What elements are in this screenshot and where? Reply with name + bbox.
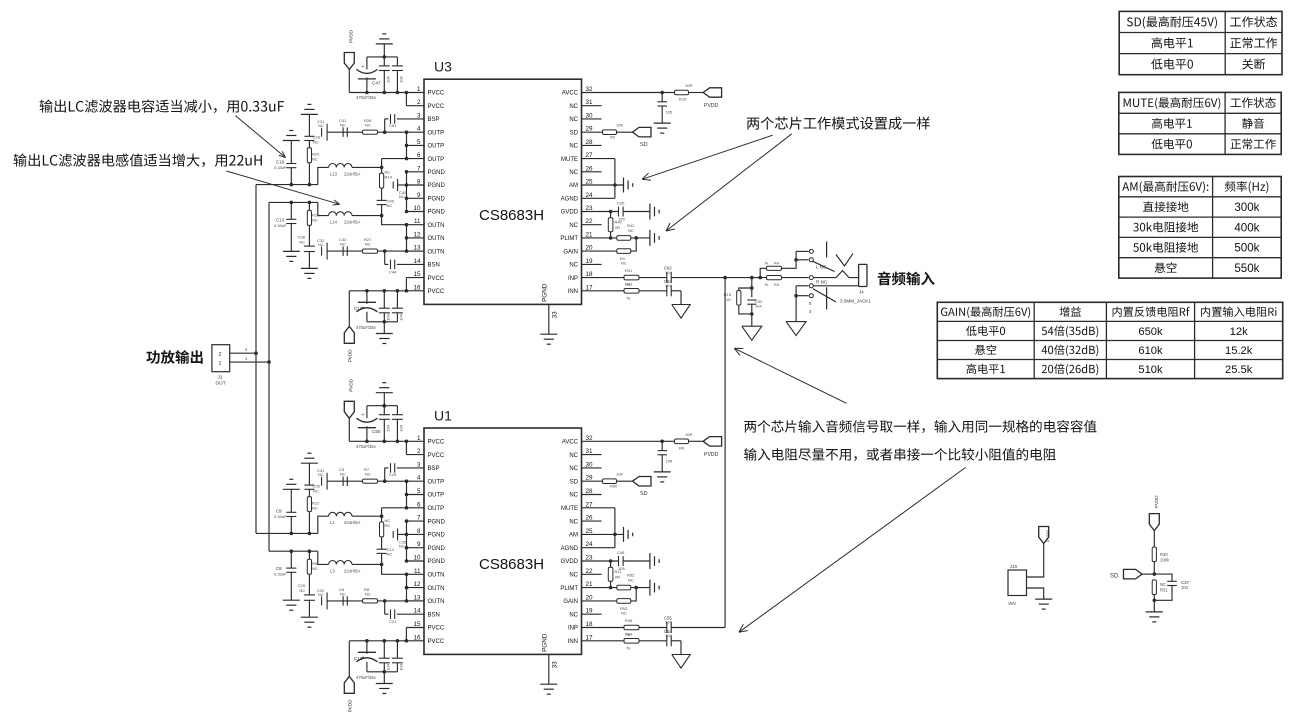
power tag PVDD at SD divider (1149, 495, 1159, 531)
svg-text:PLIMT: PLIMT (560, 586, 578, 592)
arrow to audio bus bottom (739, 467, 966, 632)
U1 pin number 31 (586, 448, 594, 455)
arrow to L14 (226, 171, 339, 205)
svg-text:NC: NC (399, 194, 405, 199)
capacitor C21 bootstrap BSN pin14 (385, 601, 424, 624)
svg-text:NC: NC (318, 242, 324, 247)
U1 pin 28 name NC (569, 493, 578, 499)
U1 pin number 20 (586, 594, 594, 601)
wire U1 MUTE-AM-AGND bracket (582, 508, 624, 548)
svg-text:NC: NC (365, 242, 371, 247)
svg-text:SD: SD (640, 491, 648, 497)
ground above C18 (283, 131, 300, 141)
wire U1 OUTN bus pins 11-13 (405, 573, 424, 603)
U1 pin number 18 (586, 621, 594, 628)
svg-text:OUTN: OUTN (428, 573, 445, 579)
wire output bus OUT- vertical (267, 202, 271, 551)
wire U3 OUTP row pin 4 (327, 130, 424, 134)
resistor R48 7k INP (582, 618, 667, 637)
annotation output LC capacitor note (40, 99, 284, 113)
U1 pin 7 name PGND (428, 519, 446, 525)
svg-text:PVDD: PVDD (348, 378, 353, 391)
capacitor C62 INP coupling (664, 266, 725, 284)
ground above U1 top link (376, 383, 393, 406)
power tag PVDD at U3 top (344, 30, 354, 93)
svg-text:7k: 7k (764, 261, 768, 266)
U3 pin number 6 (417, 152, 421, 159)
resistor R11 0R GVDD-PLIMT (608, 561, 622, 588)
svg-text:J1: J1 (218, 375, 223, 381)
ground at U3 PLIMT (650, 230, 659, 246)
U1 pin 29 name SD (570, 479, 579, 485)
svg-text:104: 104 (399, 313, 404, 320)
resistor R2 10K SD pin 29 (582, 123, 633, 140)
wire U3 bottom link (367, 320, 398, 324)
net tag SD at divider (1110, 569, 1156, 579)
U3 pin 29 name SD (570, 130, 579, 136)
U3 pin number 3 (417, 112, 421, 119)
U1 pin 32 name AVCC (562, 440, 579, 446)
svg-text:NC: NC (387, 203, 393, 208)
U3 pin number 8 (417, 179, 421, 186)
svg-text:PVDD: PVDD (1046, 530, 1051, 542)
U3 pin 2 name PVCC (428, 104, 445, 110)
capacitor C49 GVDD 105 (617, 550, 650, 571)
capacitor C28 NC (304, 114, 320, 144)
resistor R7 NC row4 (363, 467, 378, 483)
U1 pin number 16 (413, 634, 421, 641)
svg-text:470uF/35v: 470uF/35v (356, 675, 377, 680)
wire U1 PVCC bottom rail pins 15-16 (349, 628, 424, 643)
U1 pin 22 name NC (569, 573, 578, 579)
capacitor U3 PGND NC cap (393, 179, 407, 199)
svg-text:100k: 100k (1160, 558, 1170, 563)
svg-text:1: 1 (219, 361, 222, 367)
svg-text:0.33uF: 0.33uF (274, 514, 287, 519)
svg-text:C47: C47 (372, 80, 381, 85)
svg-text:L NC: L NC (816, 264, 827, 269)
svg-text:104: 104 (665, 633, 672, 638)
capacitor C8 0.33uF filter (274, 551, 296, 600)
svg-text:PVCC: PVCC (428, 104, 445, 110)
svg-text:104: 104 (755, 304, 762, 309)
svg-text:470uF/35v: 470uF/35v (356, 325, 377, 330)
wire U3 filter node row A (256, 183, 318, 187)
svg-text:R3: R3 (774, 282, 780, 287)
svg-text:GAIN: GAIN (563, 249, 578, 255)
svg-text:PVCC: PVCC (428, 289, 445, 295)
connector J4 3.5mm jack contacts (794, 242, 871, 315)
resistor R16 10R AVCC (662, 83, 703, 102)
svg-text:PVDD: PVDD (348, 349, 353, 362)
U3 pin 5 name OUTP (428, 144, 445, 150)
U1 pin number 23 (586, 555, 594, 562)
ground below U1 AVCC cap (654, 472, 671, 482)
svg-text:PGND: PGND (428, 533, 446, 539)
net tag SD at U1 (633, 477, 652, 498)
U3 pin number 17 (586, 284, 594, 291)
svg-text:NC: NC (621, 610, 627, 615)
svg-text:C13: C13 (276, 217, 285, 222)
ground above C28 (301, 104, 318, 114)
svg-text:NC: NC (318, 123, 324, 128)
table GAIN settings (937, 302, 1282, 378)
U1 pin 10 name PGND (428, 559, 446, 565)
svg-text:MUTE: MUTE (561, 506, 578, 512)
capacitor C29 NC (298, 583, 315, 617)
U3 pin 33 PGND stub and ground (540, 304, 558, 344)
capacitor U3 top bypass 1 (379, 57, 391, 93)
svg-text:0R: 0R (615, 225, 620, 230)
svg-text:OUT: OUT (216, 381, 226, 387)
capacitor C26 bootstrap BSP pin3 (385, 463, 424, 481)
U3 pin number 18 (586, 271, 594, 278)
power tag PVDD at J10 (1039, 527, 1051, 544)
U1 pin number 17 (586, 634, 594, 641)
U1 pin number 26 (586, 515, 594, 522)
svg-text:AVCC: AVCC (562, 91, 579, 97)
svg-text:610k: 610k (1138, 345, 1163, 357)
svg-text:25.5k: 25.5k (1225, 364, 1253, 376)
svg-text:10R: 10R (685, 83, 692, 88)
power tag PVDD right of U3 (703, 88, 722, 109)
svg-text:C8: C8 (276, 566, 282, 571)
svg-text:J10: J10 (1010, 564, 1018, 569)
svg-text:R16: R16 (679, 97, 687, 102)
svg-text:PLIMT: PLIMT (560, 236, 578, 242)
power tag PVDD at U1 top (344, 378, 354, 441)
svg-text:NC: NC (569, 117, 578, 123)
ground triangle at U3 INN (672, 291, 690, 318)
svg-text:NC: NC (628, 578, 634, 583)
wire U1 GVDD pin 23 (582, 559, 619, 563)
svg-text:CS8683H: CS8683H (479, 207, 544, 224)
resistor R42 NC PLIMT (617, 223, 650, 240)
svg-text:22uH/5A: 22uH/5A (344, 171, 361, 176)
U3 pin 15 name PVCC (428, 276, 445, 282)
U1 pin 25 name AM (569, 533, 578, 539)
U1 pin number 1 (417, 435, 421, 442)
U3 pin number 19 (586, 258, 594, 265)
wire audio input main line (725, 276, 809, 280)
ground at U1 PLIMT (650, 580, 659, 596)
svg-text:SD: SD (1110, 574, 1119, 580)
svg-text:OUTP: OUTP (428, 493, 445, 499)
table MUTE states (1119, 92, 1281, 154)
U1 pin number 8 (417, 528, 421, 535)
svg-text:0.33uF: 0.33uF (274, 165, 287, 170)
capacitor U1 row13 series cap (339, 587, 347, 606)
resistor R52 NC PLIMT (617, 573, 650, 590)
svg-text:BSN: BSN (428, 263, 440, 269)
svg-text:PGND: PGND (542, 283, 549, 302)
capacitor C9 0.33uF filter (274, 489, 296, 533)
capacitor C10 electrolytic 470uF/35v (354, 641, 377, 680)
annotation output LC inductor note (14, 154, 262, 167)
U3 pin 3 name BSP (428, 117, 440, 123)
capacitor C47 electrolytic 470uF/35v (356, 57, 381, 100)
wire U1 AVCC pin 32 (582, 440, 665, 444)
U1 pin 13 name OUTN (428, 599, 445, 605)
svg-text:104: 104 (386, 424, 391, 431)
wire audio shunt branch (739, 278, 754, 298)
U3 pin 20 name GAIN (563, 249, 578, 255)
U3 pin 19 name NC (569, 263, 578, 269)
U1 pin 33 PGND stub and ground (540, 654, 558, 694)
op-amp U3 CS8683H chip body (424, 59, 582, 305)
svg-text:104: 104 (665, 270, 672, 275)
ground at J10 (1035, 599, 1052, 609)
inductor L1 22uH/5A output filter (318, 512, 382, 533)
ground at U1 GVDD (650, 553, 659, 569)
wire U3 OUTP bus pins 4-6 (382, 130, 424, 160)
U1 pin number 5 (417, 488, 421, 495)
svg-text:OUTP: OUTP (428, 130, 445, 136)
U1 pin number 21 (586, 581, 594, 588)
U3 pin 1 name PVCC (428, 91, 445, 97)
wire U1 OUTP row pin 4 (327, 479, 424, 483)
capacitor U1 row4 NC cap to left (317, 468, 327, 490)
svg-text:BSP: BSP (428, 466, 440, 472)
svg-text:NC: NC (628, 228, 634, 233)
U3 pin 30 name NC (569, 117, 578, 123)
inductor L3 22uH/5A output filter (318, 551, 382, 573)
U1 pin 20 name GAIN (563, 599, 578, 605)
capacitor C35 NC (304, 463, 320, 493)
resistor R43 7k INN (582, 281, 667, 300)
table SD states (1119, 11, 1282, 74)
U1 pin number 14 (413, 608, 421, 615)
svg-text:470uF/35v: 470uF/35v (356, 95, 377, 100)
svg-text:NC: NC (312, 157, 318, 162)
U3 pin 11 name OUTN (428, 223, 445, 229)
svg-text:R48: R48 (625, 618, 633, 623)
U3 pin number 7 (417, 165, 421, 172)
svg-text:C19: C19 (354, 306, 363, 311)
svg-text:104: 104 (386, 663, 391, 670)
U3 pin number 25 (586, 179, 594, 186)
svg-text:GVDD: GVDD (561, 210, 579, 216)
U1 pin 18 name INP (568, 626, 578, 632)
svg-text:R11: R11 (615, 569, 623, 574)
wire J1 pin 2 to OUT+ bus (230, 347, 256, 353)
resistor R41 7k INP (582, 268, 667, 287)
power tag PVDD at U1 bottom (344, 641, 354, 713)
U3 pin 26 name NC (569, 170, 578, 176)
U3 pin number 24 (586, 192, 594, 199)
U1 pin 2 name PVCC (428, 453, 445, 459)
ground below C29 (301, 617, 318, 627)
svg-text:R5: R5 (385, 523, 391, 528)
svg-text:400k: 400k (1234, 221, 1259, 234)
svg-text:INP: INP (568, 626, 578, 632)
capacitor U3 row13 NC cap to left (317, 238, 327, 260)
svg-text:C21: C21 (389, 619, 397, 624)
connector J10 VIN (1008, 564, 1027, 606)
wire U3 NC pin stubs right (582, 106, 602, 265)
U3 pin 24 name AGND (561, 197, 579, 203)
capacitor U1 row13 NC cap to left (317, 588, 327, 610)
capacitor C50 electrolytic 470uF/35v (356, 406, 381, 449)
capacitor C63 INN coupling (664, 279, 681, 297)
U3 pin 32 name AVCC (562, 91, 579, 97)
svg-text:PVCC: PVCC (428, 440, 445, 446)
capacitor C38 NC (298, 234, 315, 268)
ground at SD divider (1146, 600, 1163, 622)
svg-text:VIN: VIN (1008, 601, 1016, 606)
U1 pin number 28 (586, 488, 594, 495)
wire output bus OUT+ vertical (254, 185, 258, 534)
U1 pin number 30 (586, 461, 594, 468)
U1 pin 30 name NC (569, 466, 578, 472)
U3 pin 17 name INN (568, 289, 578, 295)
U1 pin number 24 (586, 541, 594, 548)
svg-text:NC: NC (569, 223, 578, 229)
capacitor C44 bootstrap BSN pin14 (385, 251, 424, 274)
arrow to U3 AM ground (642, 135, 773, 180)
U3 pin number 21 (586, 231, 594, 238)
U1 pin number 27 (586, 501, 594, 508)
svg-text:NC: NC (340, 123, 346, 128)
U1 pin number 25 (586, 528, 594, 535)
annotation audio input note line 1 (744, 420, 1096, 433)
svg-text:U3: U3 (434, 59, 452, 75)
svg-text:PGND: PGND (428, 183, 446, 189)
svg-text:C51: C51 (389, 123, 397, 128)
svg-text:PGND: PGND (428, 559, 446, 565)
wire U1 bottom link (367, 670, 398, 674)
svg-text:470uF/35v: 470uF/35v (356, 444, 377, 449)
U1 pin 17 name INN (568, 639, 578, 645)
U3 pin number 31 (586, 99, 594, 106)
U1 pin number 10 (413, 555, 421, 562)
svg-text:C49: C49 (617, 550, 625, 555)
capacitor C18 0.33uF filter (274, 141, 296, 185)
svg-text:104: 104 (386, 75, 391, 82)
svg-text:SD: SD (570, 479, 579, 485)
svg-text:GAIN: GAIN (563, 599, 578, 605)
svg-text:NC: NC (569, 453, 578, 459)
svg-text:C50: C50 (372, 429, 381, 434)
U3 pin 23 name GVDD (561, 210, 579, 216)
svg-text:R40: R40 (615, 220, 623, 225)
connector J1 OUT 功放输出 (212, 345, 230, 387)
resistor R28 NC (307, 202, 320, 246)
svg-text:OUTN: OUTN (428, 599, 445, 605)
svg-text:NC: NC (313, 140, 319, 145)
U3 pin 28 name NC (569, 144, 578, 150)
svg-text:PGND: PGND (428, 197, 446, 203)
U1 pin number 11 (414, 568, 421, 575)
svg-text:AVCC: AVCC (562, 440, 579, 446)
svg-text:NC: NC (569, 104, 578, 110)
svg-text:300k: 300k (1234, 201, 1259, 214)
svg-text:3.5MM_JACK1: 3.5MM_JACK1 (840, 299, 871, 304)
wire U3 PVCC top rail pins 1-2 (349, 91, 424, 106)
wire U3 AVCC pin 32 (582, 91, 665, 95)
svg-text:104: 104 (399, 75, 404, 82)
svg-text:INN: INN (568, 639, 578, 645)
svg-text:PVCC: PVCC (428, 276, 445, 282)
capacitor U3 bottom bypass 1 (379, 291, 391, 322)
U3 pin 31 name NC (569, 104, 578, 110)
svg-text:22uH/5A: 22uH/5A (344, 568, 361, 573)
U1 pin 16 name PVCC (428, 639, 445, 645)
resistor R30 100k pull-up (1152, 531, 1170, 575)
svg-text:7k: 7k (626, 295, 630, 300)
svg-text:22uH/5A: 22uH/5A (344, 220, 361, 225)
U3 pin 13 name OUTN (428, 249, 445, 255)
arrow to U3 PLIMT ground (666, 134, 792, 231)
capacitor U1 bottom bypass 2 (392, 641, 404, 672)
svg-text:PVDD: PVDD (348, 699, 353, 712)
svg-text:NC: NC (569, 263, 578, 269)
U3 pin number 20 (586, 245, 594, 252)
resistor R1 NC GAIN pin 20 (582, 238, 637, 266)
wire U3 top link (367, 55, 398, 59)
svg-text:2: 2 (219, 352, 222, 358)
svg-text:R30: R30 (1160, 552, 1168, 557)
svg-text:PGND: PGND (428, 210, 446, 216)
ground above U3 top link (376, 34, 393, 57)
U3 pin number 2 (417, 99, 421, 106)
U1 pin 6 name OUTP (428, 506, 445, 512)
inductor L14 22uH/5A output filter (318, 202, 382, 224)
svg-text:NC: NC (569, 573, 578, 579)
wire U3 PGND bus pins 7-10 (405, 170, 424, 213)
svg-text:U1: U1 (434, 408, 452, 424)
capacitor U3 top bypass 2 (392, 57, 404, 93)
svg-text:NC: NC (365, 591, 371, 596)
svg-text:104: 104 (399, 424, 404, 431)
svg-text:NC: NC (399, 543, 405, 548)
svg-text:R6: R6 (679, 445, 685, 450)
svg-text:MUTE: MUTE (561, 157, 578, 163)
U3 pin 8 name PGND (428, 183, 446, 189)
wire U1 OUTP bus pins 4-6 (382, 479, 424, 509)
U3 pin number 23 (586, 205, 594, 212)
resistor R49 7k INN (582, 631, 667, 650)
U1 pin 4 name OUTP (428, 479, 445, 485)
U1 pin 3 name BSP (428, 466, 440, 472)
svg-text:105: 105 (666, 110, 673, 115)
U3 pin number 11 (414, 218, 421, 225)
ground above C9 (283, 479, 300, 489)
wire U3 GVDD pin 23 (582, 210, 619, 214)
capacitor U1 top bypass 1 (379, 406, 391, 442)
svg-text:SD: SD (570, 130, 579, 136)
capacitor C51 bootstrap BSP pin3 (385, 114, 424, 132)
svg-text:PVDD: PVDD (704, 452, 719, 458)
capacitor C37 104 (1154, 574, 1189, 600)
U3 pin 9 name PGND (428, 197, 446, 203)
wire U1 filter node row B (269, 549, 318, 553)
U3 pin number 16 (413, 284, 421, 291)
wire U1 PLIMT pin 21 (582, 586, 617, 590)
ground at U3 GVDD (650, 204, 659, 220)
label 功放输出 (146, 350, 202, 364)
ground below C8 (283, 600, 300, 610)
svg-text:NC: NC (299, 239, 305, 244)
U3 pin number 12 (413, 231, 421, 238)
U1 pin number 15 (413, 621, 421, 628)
U1 pin 19 name NC (569, 612, 578, 618)
U1 pin 12 name OUTN (428, 586, 445, 592)
U3 pin 18 name INP (568, 276, 578, 282)
svg-text:AGND: AGND (561, 546, 579, 552)
ground below U3 bottom link (376, 322, 393, 344)
resistor R20 NC (307, 141, 320, 185)
